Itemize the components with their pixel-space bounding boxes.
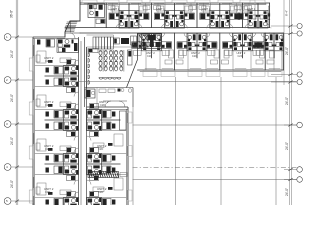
serving counter — [128, 50, 133, 65]
community area east wall — [137, 33, 139, 60]
left column unit wall 2 — [35, 86, 79, 88]
west wall window sills — [33, 45, 35, 56]
lower row right extension top wall — [270, 32, 284, 34]
elevator and stair block — [138, 34, 162, 49]
upper row interior walls — [94, 3, 96, 28]
hatched service band — [88, 172, 119, 178]
office chairs — [91, 91, 94, 94]
right column sofas — [93, 143, 104, 148]
svg-text:36'-8": 36'-8" — [10, 10, 14, 18]
left column sofas — [60, 58, 71, 63]
community tables — [102, 50, 104, 72]
top wing left wall — [65, 0, 80, 37]
community room diagonal wall — [127, 60, 138, 88]
mask outside right wall — [284, 28, 296, 76]
mail counter — [121, 38, 129, 44]
lobby north units wall — [87, 106, 129, 108]
stair rail — [70, 22, 72, 33]
grid bubble L4 — [4, 164, 11, 171]
top wing top wall — [80, 2, 270, 4]
service band tag — [120, 173, 127, 177]
community area west wall — [84, 37, 86, 107]
left column unit wall 6 — [35, 174, 79, 176]
office divider — [96, 88, 98, 108]
corridor north wall — [65, 27, 270, 29]
left column unit wall 3 — [35, 109, 79, 111]
right column unit wall 2 — [87, 153, 127, 155]
stair lobby door — [65, 32, 80, 34]
right column unit wall 3 — [87, 174, 127, 176]
right column unit wall 1 — [87, 130, 127, 132]
left wing west wall — [32, 37, 34, 205]
storage shelf — [131, 36, 137, 45]
right column dressers — [108, 143, 113, 146]
lower row closets — [165, 60, 172, 64]
lower row party wall 2 — [219, 33, 221, 70]
svg-text:C2D: C2D — [98, 190, 103, 194]
grid line horizontal E — [133, 124, 297, 126]
grid line vertical C — [220, 77, 222, 205]
bath cluster lower pair 1 — [132, 33, 172, 58]
left column dressers — [48, 60, 53, 63]
left dimension ticks — [15, 36, 19, 39]
right column door arcs — [87, 112, 92, 117]
corner unit bath cluster — [88, 4, 105, 24]
mail room divider — [87, 46, 138, 48]
lobby east wall — [132, 88, 134, 108]
corner stair treads — [65, 22, 77, 32]
grid bubble R2 — [297, 31, 302, 36]
kitchenette counter — [88, 49, 98, 53]
svg-text:24'-0": 24'-0" — [285, 97, 289, 105]
left column unit wall 7 — [35, 197, 79, 199]
grid bubble L5 — [4, 198, 11, 205]
grid bubble R3 — [297, 72, 302, 77]
svg-text:8'-4": 8'-4" — [285, 10, 289, 16]
right column beds — [114, 134, 123, 146]
lobby plant — [128, 89, 132, 93]
bath cluster left col top — [37, 39, 79, 53]
vestibule doors — [105, 101, 125, 107]
grid bubble R7 — [297, 177, 303, 183]
svg-text:C2D: C2D — [238, 55, 243, 58]
mail table — [114, 38, 120, 44]
patio fences along wing bottom — [143, 71, 157, 77]
grid line vertical A — [132, 88, 134, 205]
left column beds — [37, 51, 46, 63]
grid centre line dashed — [133, 167, 297, 169]
bath cluster upper pair 1 — [109, 4, 149, 29]
bath cluster upper end unit — [238, 4, 278, 29]
chairs along south side — [99, 78, 103, 80]
left dimension line — [15, 0, 17, 205]
bath cluster left col pair 2 — [45, 104, 79, 137]
bath cluster upper pair 2 — [154, 4, 194, 29]
svg-text:24'-0": 24'-0" — [285, 188, 289, 196]
grid bubble L2 — [4, 77, 11, 84]
lower row interior walls — [145, 33, 147, 70]
bath cluster right col pair 2 — [87, 148, 121, 181]
bath cluster upper pair 3 — [200, 4, 240, 29]
svg-text:C2D: C2D — [45, 190, 50, 194]
svg-text:24'-0": 24'-0" — [10, 180, 14, 188]
corridor south wall — [80, 32, 270, 34]
upper row party wall 3 — [196, 3, 198, 28]
left column door arcs — [74, 60, 79, 65]
svg-text:UNIT 1: UNIT 1 — [247, 7, 256, 11]
grid bubble R4 — [297, 79, 302, 84]
chairs along west wall — [88, 53, 90, 57]
top wing right wall — [283, 33, 285, 70]
bath cluster right col pair 1 — [87, 104, 121, 137]
right column unit wall 4 — [87, 197, 127, 199]
top wing upper-right corner wall — [269, 3, 271, 28]
top wing bottom wall — [138, 69, 284, 71]
upper row closets — [108, 6, 115, 10]
left column unit wall 4 — [35, 130, 79, 132]
svg-text:24'-0": 24'-0" — [285, 47, 289, 55]
left wing north wall — [33, 36, 65, 38]
lower row party wall 3 — [264, 33, 266, 70]
left column unit wall 1 — [35, 65, 79, 67]
grid bubble R5 — [297, 122, 303, 128]
left corridor west wall — [78, 37, 80, 205]
lower row party wall 1 — [173, 33, 175, 70]
right dimension line — [289, 0, 291, 205]
left corridor east wall — [86, 47, 88, 205]
right wing-edge extension — [283, 0, 285, 85]
bath cluster left col pair 3 — [45, 148, 79, 181]
svg-text:24'-0": 24'-0" — [285, 142, 289, 150]
upper row party wall 1 — [105, 3, 107, 28]
upper row bedroom walls — [89, 3, 91, 14]
grid bubble R1 — [297, 23, 302, 28]
grid line vertical B — [175, 77, 177, 205]
bath cluster lower pair 2 — [177, 33, 217, 58]
svg-text:C2D: C2D — [100, 103, 105, 107]
svg-text:24'-0": 24'-0" — [10, 94, 14, 102]
upper row window sills — [84, 3, 94, 5]
living room furniture — [120, 111, 127, 130]
mask outside upper-right wall — [270, 0, 284, 27]
office desk — [85, 89, 95, 98]
laundry machines — [93, 37, 96, 49]
svg-text:C2D: C2D — [192, 55, 197, 58]
grid bubble L3 — [4, 121, 11, 128]
lobby seating — [99, 89, 106, 93]
grid bubble R6 — [297, 167, 303, 173]
upper row party wall 2 — [151, 3, 153, 28]
community room tables and chairs — [99, 50, 102, 55]
upper row party wall 4 — [242, 3, 244, 28]
grid line horizontal F — [133, 179, 297, 181]
right dimension ticks — [288, 25, 292, 28]
patio fences along top edge — [82, 0, 97, 3]
office south wall — [85, 87, 134, 89]
bath cluster left col bottom — [45, 192, 79, 225]
svg-text:C2D: C2D — [98, 147, 103, 151]
left wing east wall — [127, 107, 129, 205]
west balconies — [29, 58, 33, 71]
bath cluster lower pair 3 — [223, 33, 263, 58]
left column unit wall 5 — [35, 153, 79, 155]
svg-text:C2D: C2D — [45, 103, 50, 107]
laundry room wall — [87, 34, 114, 36]
bath cluster lower pair 4 — [254, 33, 294, 58]
grid line vertical D — [275, 77, 277, 205]
svg-text:24'-0": 24'-0" — [10, 50, 14, 58]
svg-text:24'-0": 24'-0" — [10, 137, 14, 145]
bath cluster right col bottom — [87, 192, 121, 225]
east balconies — [128, 112, 132, 123]
bath cluster left col pair 1 — [45, 60, 79, 93]
left column closets — [36, 55, 40, 62]
svg-text:C2D: C2D — [45, 59, 50, 63]
svg-text:C2D: C2D — [45, 147, 50, 151]
lower row patio doors — [145, 68, 156, 70]
grid bubble L1 — [4, 34, 11, 41]
wing bottom dimension line — [68, 80, 297, 82]
east wall window sills — [126, 113, 128, 123]
lower row furniture — [169, 50, 174, 58]
